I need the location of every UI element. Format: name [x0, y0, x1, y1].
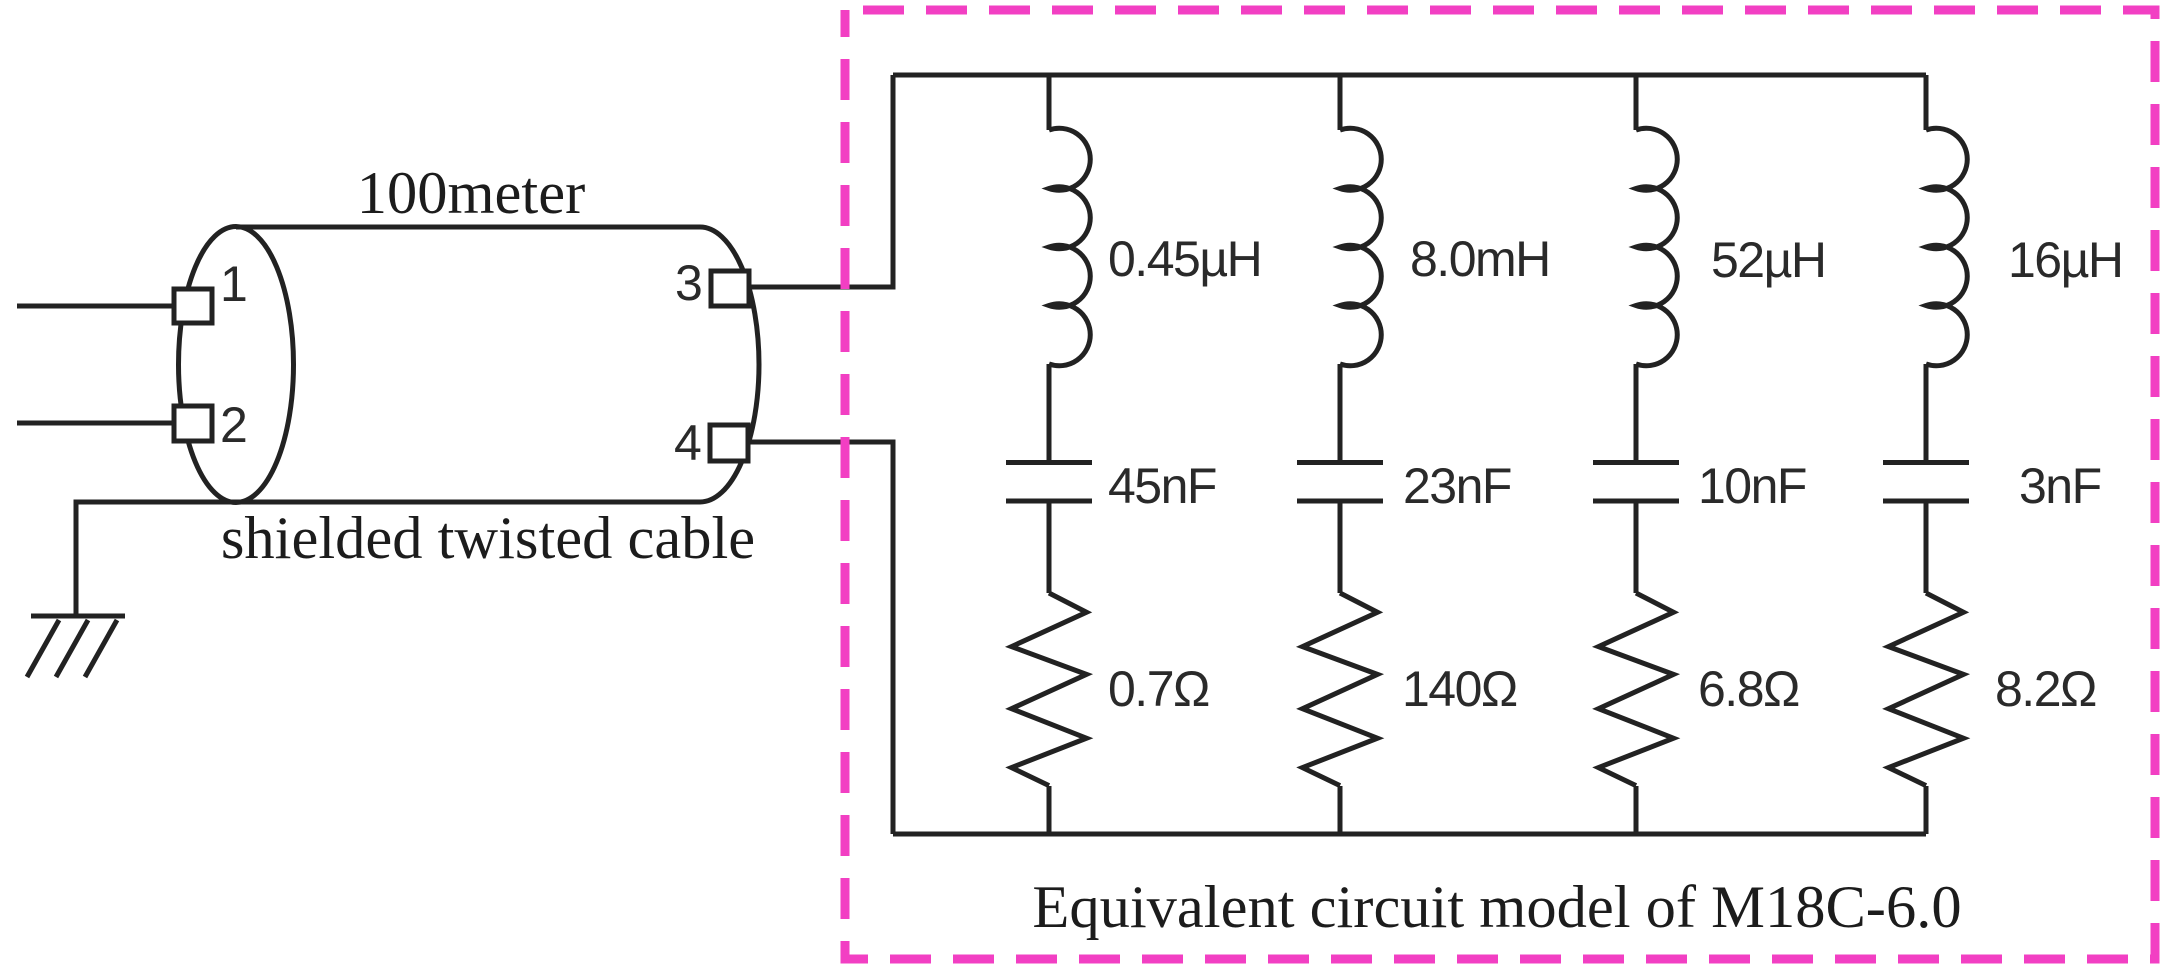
wire input lead 1	[17, 304, 174, 309]
capacitor C1	[1006, 463, 1092, 502]
ground	[27, 616, 125, 677]
svg-text:8.2Ω: 8.2Ω	[1995, 661, 2096, 717]
branch 4 wires	[1924, 75, 1929, 834]
svg-text:3nF: 3nF	[2019, 458, 2101, 514]
capacitor C2	[1297, 463, 1383, 502]
svg-text:16µH: 16µH	[2008, 232, 2123, 288]
shielded twisted cable body (cylinder)	[179, 227, 760, 503]
pin 2 terminal	[174, 406, 212, 441]
inductor L1	[1049, 128, 1090, 365]
pin 1 terminal	[174, 289, 212, 323]
resistor R3	[1599, 593, 1674, 786]
svg-text:Equivalent circuit model of M1: Equivalent circuit model of M18C-6.0	[1032, 874, 1961, 941]
inductor L2	[1340, 128, 1381, 365]
wire top rail	[893, 73, 1926, 78]
svg-text:6.8Ω: 6.8Ω	[1698, 661, 1799, 717]
wire shield/ground net	[76, 502, 700, 616]
svg-text:4: 4	[674, 415, 702, 471]
svg-text:2: 2	[220, 397, 248, 453]
capacitor C4	[1883, 463, 1969, 502]
wire pin4 to model	[748, 442, 893, 834]
svg-text:1: 1	[220, 256, 248, 312]
svg-text:8.0mH: 8.0mH	[1410, 231, 1550, 287]
svg-text:23nF: 23nF	[1403, 458, 1511, 514]
svg-text:3: 3	[675, 255, 703, 311]
branch 3 wires	[1634, 75, 1639, 834]
pin 4 terminal	[710, 425, 748, 461]
dashed model boundary box	[845, 10, 2155, 959]
wire pin3 to model	[748, 75, 893, 287]
branch 2 wires	[1338, 75, 1343, 834]
resistor R1	[1012, 593, 1087, 786]
inductor L4	[1926, 128, 1967, 365]
svg-text:52µH: 52µH	[1711, 232, 1826, 288]
branch 1 wires	[1047, 75, 1052, 834]
svg-text:0.45µH: 0.45µH	[1108, 231, 1261, 287]
svg-text:0.7Ω: 0.7Ω	[1108, 661, 1209, 717]
svg-text:45nF: 45nF	[1108, 458, 1216, 514]
wire input lead 2	[17, 421, 174, 426]
svg-text:10nF: 10nF	[1698, 458, 1806, 514]
wire bottom rail	[893, 832, 1926, 837]
inductor L3	[1636, 128, 1677, 365]
pin 3 terminal	[711, 271, 749, 306]
capacitor C3	[1593, 463, 1679, 502]
svg-text:100meter: 100meter	[357, 160, 585, 227]
resistor R2	[1303, 593, 1378, 786]
svg-text:shielded twisted cable: shielded twisted cable	[221, 505, 755, 572]
resistor R4	[1889, 593, 1964, 786]
svg-text:140Ω: 140Ω	[1402, 661, 1517, 717]
